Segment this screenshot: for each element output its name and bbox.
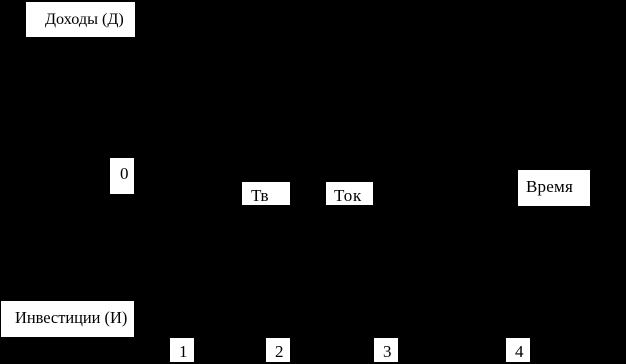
phase box 3 (374, 338, 398, 362)
label box: Ток (326, 182, 373, 205)
label box: Тв (242, 182, 290, 205)
phase box 1 (170, 338, 194, 362)
phase box 2 (266, 338, 290, 362)
label box: Доходы (Д) (26, 2, 135, 37)
label box: 0 (origin) (110, 158, 134, 194)
label box: Время (time axis) (518, 170, 590, 206)
phase box 4 (506, 338, 530, 362)
label box: Инвестиции (И) (1, 301, 134, 337)
